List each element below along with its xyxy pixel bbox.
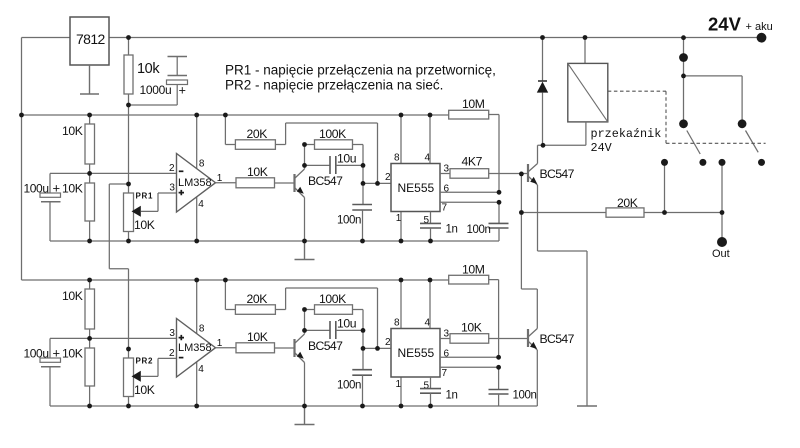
- node PR2 top: [126, 347, 131, 352]
- wire top rail right segment: [109, 37, 762, 39]
- capacitor C6 100n (upper pins 6/7): [467, 202, 509, 241]
- dashed mechanical link relay to switches: [608, 91, 766, 143]
- wire node B (lower divider tap to pin3): [50, 337, 177, 339]
- svg-text:100n: 100n: [467, 224, 491, 236]
- svg-text:1: 1: [396, 213, 402, 224]
- capacitor C9 100n (lower timing): [337, 330, 372, 406]
- svg-text:10K: 10K: [134, 383, 155, 397]
- wire pin2 net (upper): [363, 182, 391, 184]
- svg-text:8: 8: [199, 324, 205, 335]
- svg-text:1n: 1n: [446, 224, 458, 236]
- svg-text:BC547: BC547: [540, 332, 575, 346]
- svg-text:7: 7: [442, 203, 448, 214]
- svg-text:1000u: 1000u: [140, 83, 172, 97]
- wire pin2 net (lower): [363, 347, 391, 349]
- switch S1 lever: [687, 131, 700, 155]
- svg-text:NE555: NE555: [398, 346, 435, 360]
- wire switch contact stub A: [664, 162, 666, 212]
- wire switch feed: [684, 38, 743, 124]
- wire rail V2 (lower +12V rail): [22, 279, 449, 281]
- svg-text:+: +: [53, 181, 61, 196]
- wire left vertical bus: [21, 38, 23, 281]
- node rail G2 junctions: [87, 404, 92, 409]
- wire pin6 (lower): [440, 356, 499, 358]
- node rail V2 junctions: [87, 278, 92, 283]
- svg-text:BC547: BC547: [308, 174, 343, 188]
- svg-text:100n: 100n: [337, 215, 361, 227]
- svg-text:10u: 10u: [337, 317, 356, 331]
- op-amp U2 LM358 (lower): [169, 280, 223, 406]
- svg-text:2: 2: [169, 348, 175, 359]
- wire Q3 base column to Q4 collector: [521, 174, 537, 329]
- svg-text:+: +: [53, 345, 61, 360]
- node pin2 lower: [361, 346, 366, 351]
- switch S2 lever: [746, 131, 759, 153]
- node rail V1 junctions: [19, 113, 24, 118]
- wire jog feeding PR2: [109, 184, 128, 349]
- diode D1: [537, 38, 548, 146]
- transistor Q3 BC547 (relay driver): [528, 145, 587, 406]
- svg-text:PR2: PR2: [136, 357, 154, 366]
- capacitor C2 100u: [24, 173, 61, 241]
- svg-text:1: 1: [396, 379, 402, 390]
- svg-text:PR2 - napięcie przełączenia na: PR2 - napięcie przełączenia na sieć.: [225, 78, 443, 93]
- svg-text:5: 5: [424, 215, 430, 226]
- resistor R7 10M (upper): [449, 97, 499, 192]
- wire Out stub: [721, 162, 723, 242]
- wire node A (upper divider tap to pin2): [50, 172, 177, 174]
- wire output line with resistor R9 20K: [521, 196, 722, 217]
- node upper divider tap: [87, 171, 92, 176]
- wire rail G2 (lower ground rail): [50, 405, 537, 407]
- svg-text:100K: 100K: [319, 127, 346, 141]
- svg-text:8: 8: [394, 318, 400, 329]
- svg-text:8: 8: [199, 159, 205, 170]
- capacitor C5 1n (upper pin5): [420, 212, 458, 242]
- svg-text:3: 3: [169, 183, 175, 194]
- node rail G1 junctions: [87, 239, 92, 244]
- svg-text:10K: 10K: [134, 218, 155, 232]
- timer U3 NE555 (upper): [385, 115, 450, 241]
- capacitor C7 100u (lower): [24, 338, 61, 406]
- resistor R5 20K (upper): [225, 115, 377, 183]
- potentiometer PR2 10K: [124, 349, 177, 406]
- capacitor C3 10u (upper): [305, 145, 364, 175]
- node R1/C1 junction: [126, 103, 131, 108]
- resistor R4 10K (U1 out to Q1 base): [236, 165, 294, 188]
- switch contact nodes: [661, 159, 668, 166]
- capacitor C10 1n (lower pin5): [420, 377, 458, 406]
- node 20K line junctions: [519, 210, 524, 215]
- svg-text:10K: 10K: [62, 124, 83, 138]
- node pins 6/7 upper: [497, 190, 502, 195]
- svg-text:100u: 100u: [24, 346, 49, 360]
- capacitor C11 100n (lower pins 6/7): [489, 367, 537, 406]
- transistor Q4 BC547 (output driver): [528, 329, 575, 407]
- svg-text:BC547: BC547: [308, 339, 343, 353]
- svg-text:100n: 100n: [337, 380, 361, 392]
- svg-text:4: 4: [198, 364, 204, 375]
- svg-text:100u: 100u: [24, 182, 49, 196]
- svg-text:20K: 20K: [247, 127, 268, 141]
- resistor R8 4K7: [440, 155, 528, 179]
- wire pin7 (upper): [440, 201, 499, 203]
- resistor R1 10k: [124, 38, 160, 106]
- svg-text:5: 5: [424, 381, 430, 392]
- node diode/relay/Q3 collector: [541, 143, 546, 148]
- svg-text:20K: 20K: [247, 292, 268, 306]
- switch common nodes: [679, 53, 688, 62]
- svg-text:4: 4: [425, 153, 431, 164]
- svg-text:Out: Out: [712, 248, 730, 260]
- svg-text:10k: 10k: [137, 61, 160, 77]
- node Out terminal: [712, 237, 730, 260]
- timer U4 NE555 (lower): [385, 280, 450, 406]
- svg-text:10M: 10M: [462, 263, 485, 277]
- svg-text:4K7: 4K7: [462, 155, 483, 169]
- node 24V battery terminal: [708, 14, 773, 43]
- resistor R12 10K (U2 out to Q2 base): [236, 330, 294, 353]
- wire rail V1 (upper +12V rail): [22, 114, 449, 116]
- relay K1 przekaznik 24V: [543, 38, 661, 156]
- svg-text:10K: 10K: [247, 165, 268, 179]
- svg-text:10M: 10M: [462, 97, 485, 111]
- resistor R16 10K (pin3 to Q4 base): [440, 321, 528, 344]
- resistor R15 10M (lower): [449, 263, 499, 358]
- svg-text:3: 3: [444, 164, 450, 175]
- svg-text:10K: 10K: [247, 330, 268, 344]
- wire op-amp U2 output: [216, 347, 237, 349]
- node PR1 top: [126, 182, 131, 187]
- svg-text:BC547: BC547: [540, 167, 575, 181]
- resistor R11 10K (lower divider bottom): [62, 338, 95, 406]
- resistor R2 10K (upper divider top): [62, 115, 95, 173]
- svg-text:1n: 1n: [446, 390, 458, 402]
- resistor R14 100K (lower): [305, 292, 364, 330]
- wire op-amp U1 output: [216, 182, 237, 184]
- resistor R10 10K (lower divider top): [62, 280, 95, 338]
- svg-text:24V: 24V: [708, 14, 742, 35]
- svg-text:przekaźnik: przekaźnik: [591, 127, 662, 141]
- potentiometer PR1 10K: [124, 184, 177, 241]
- node lower divider tap: [87, 336, 92, 341]
- ground (Q2 emitter): [295, 406, 315, 425]
- regulator U5 7812: [70, 17, 109, 94]
- node rail-A junctions: [126, 35, 131, 40]
- svg-text:2: 2: [169, 163, 175, 174]
- resistor R13 20K (lower): [225, 280, 377, 348]
- svg-text:3: 3: [444, 329, 450, 340]
- svg-text:10K: 10K: [461, 321, 482, 335]
- svg-text:LM358: LM358: [178, 177, 212, 189]
- wire pin7 (lower): [440, 366, 499, 368]
- wire pin6 (upper): [440, 191, 499, 193]
- svg-text:+ aku: + aku: [746, 21, 773, 33]
- node pins 6/7 lower: [496, 355, 501, 360]
- capacitor C4 100n (upper timing): [337, 165, 372, 241]
- wire column from R1 to PR1: [128, 105, 130, 184]
- svg-text:PR1: PR1: [136, 192, 154, 201]
- svg-text:+: +: [179, 84, 186, 98]
- svg-text:8: 8: [394, 153, 400, 164]
- ground (Q1 emitter): [295, 241, 315, 260]
- svg-text:7: 7: [442, 368, 448, 379]
- op-amp U1 LM358 (upper): [169, 115, 223, 241]
- svg-text:LM358: LM358: [178, 342, 212, 354]
- svg-text:PR1 - napięcie przełączenia na: PR1 - napięcie przełączenia na przetworn…: [225, 63, 496, 78]
- node Q2 collector/100K: [302, 307, 307, 312]
- note text PR1/PR2: [225, 63, 496, 93]
- svg-text:4: 4: [425, 318, 431, 329]
- svg-text:20K: 20K: [617, 196, 638, 210]
- transistor Q1 BC547 (upper oscillator): [295, 169, 344, 241]
- node Q3 base tee: [519, 172, 524, 177]
- svg-text:NE555: NE555: [398, 181, 435, 195]
- node Q1 collector/100K: [302, 142, 307, 147]
- wire rail G1 (upper ground rail): [50, 240, 499, 242]
- svg-text:10K: 10K: [62, 346, 83, 360]
- transistor Q2 BC547 (lower oscillator): [295, 334, 344, 406]
- svg-text:10K: 10K: [62, 182, 83, 196]
- svg-text:4: 4: [198, 199, 204, 210]
- resistor R6 100K (upper): [305, 127, 364, 165]
- svg-text:100n: 100n: [513, 390, 537, 402]
- svg-text:24V: 24V: [591, 141, 613, 155]
- capacitor C8 10u (lower): [305, 310, 364, 340]
- svg-text:2: 2: [385, 172, 391, 183]
- svg-text:10u: 10u: [337, 152, 356, 166]
- svg-text:2: 2: [385, 337, 391, 348]
- svg-text:7812: 7812: [76, 31, 106, 47]
- svg-text:100K: 100K: [319, 292, 346, 306]
- svg-text:10K: 10K: [62, 289, 83, 303]
- wire top rail left segment: [22, 37, 71, 39]
- svg-text:3: 3: [169, 328, 175, 339]
- node switch feed tee: [681, 74, 686, 79]
- capacitor C1 1000u: [129, 57, 188, 106]
- resistor R3 10K (upper divider bottom): [62, 173, 95, 241]
- node pin2 upper: [361, 181, 366, 186]
- ground (right bus bar): [577, 405, 597, 407]
